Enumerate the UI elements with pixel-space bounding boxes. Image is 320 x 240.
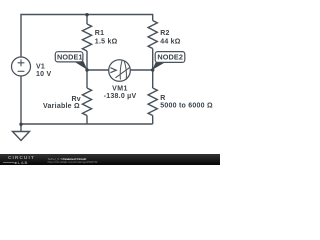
svg-text:1.5 kΩ: 1.5 kΩ xyxy=(95,39,118,46)
svg-text:44 kΩ: 44 kΩ xyxy=(160,39,181,46)
svg-text:Variable Ω: Variable Ω xyxy=(43,103,80,110)
svg-text:V1: V1 xyxy=(36,64,45,71)
svg-text:10 V: 10 V xyxy=(36,71,51,78)
svg-text:VM1: VM1 xyxy=(112,85,128,92)
svg-text:R2: R2 xyxy=(160,30,169,37)
svg-text:NODE1: NODE1 xyxy=(57,52,83,61)
svg-text:R: R xyxy=(160,95,165,102)
svg-text:NODE2: NODE2 xyxy=(157,52,183,61)
svg-text:R1: R1 xyxy=(95,30,104,37)
svg-text:Rv: Rv xyxy=(71,96,80,103)
svg-text:-138.0 µV: -138.0 µV xyxy=(104,93,137,100)
svg-text:5000 to 6000 Ω: 5000 to 6000 Ω xyxy=(160,103,213,110)
